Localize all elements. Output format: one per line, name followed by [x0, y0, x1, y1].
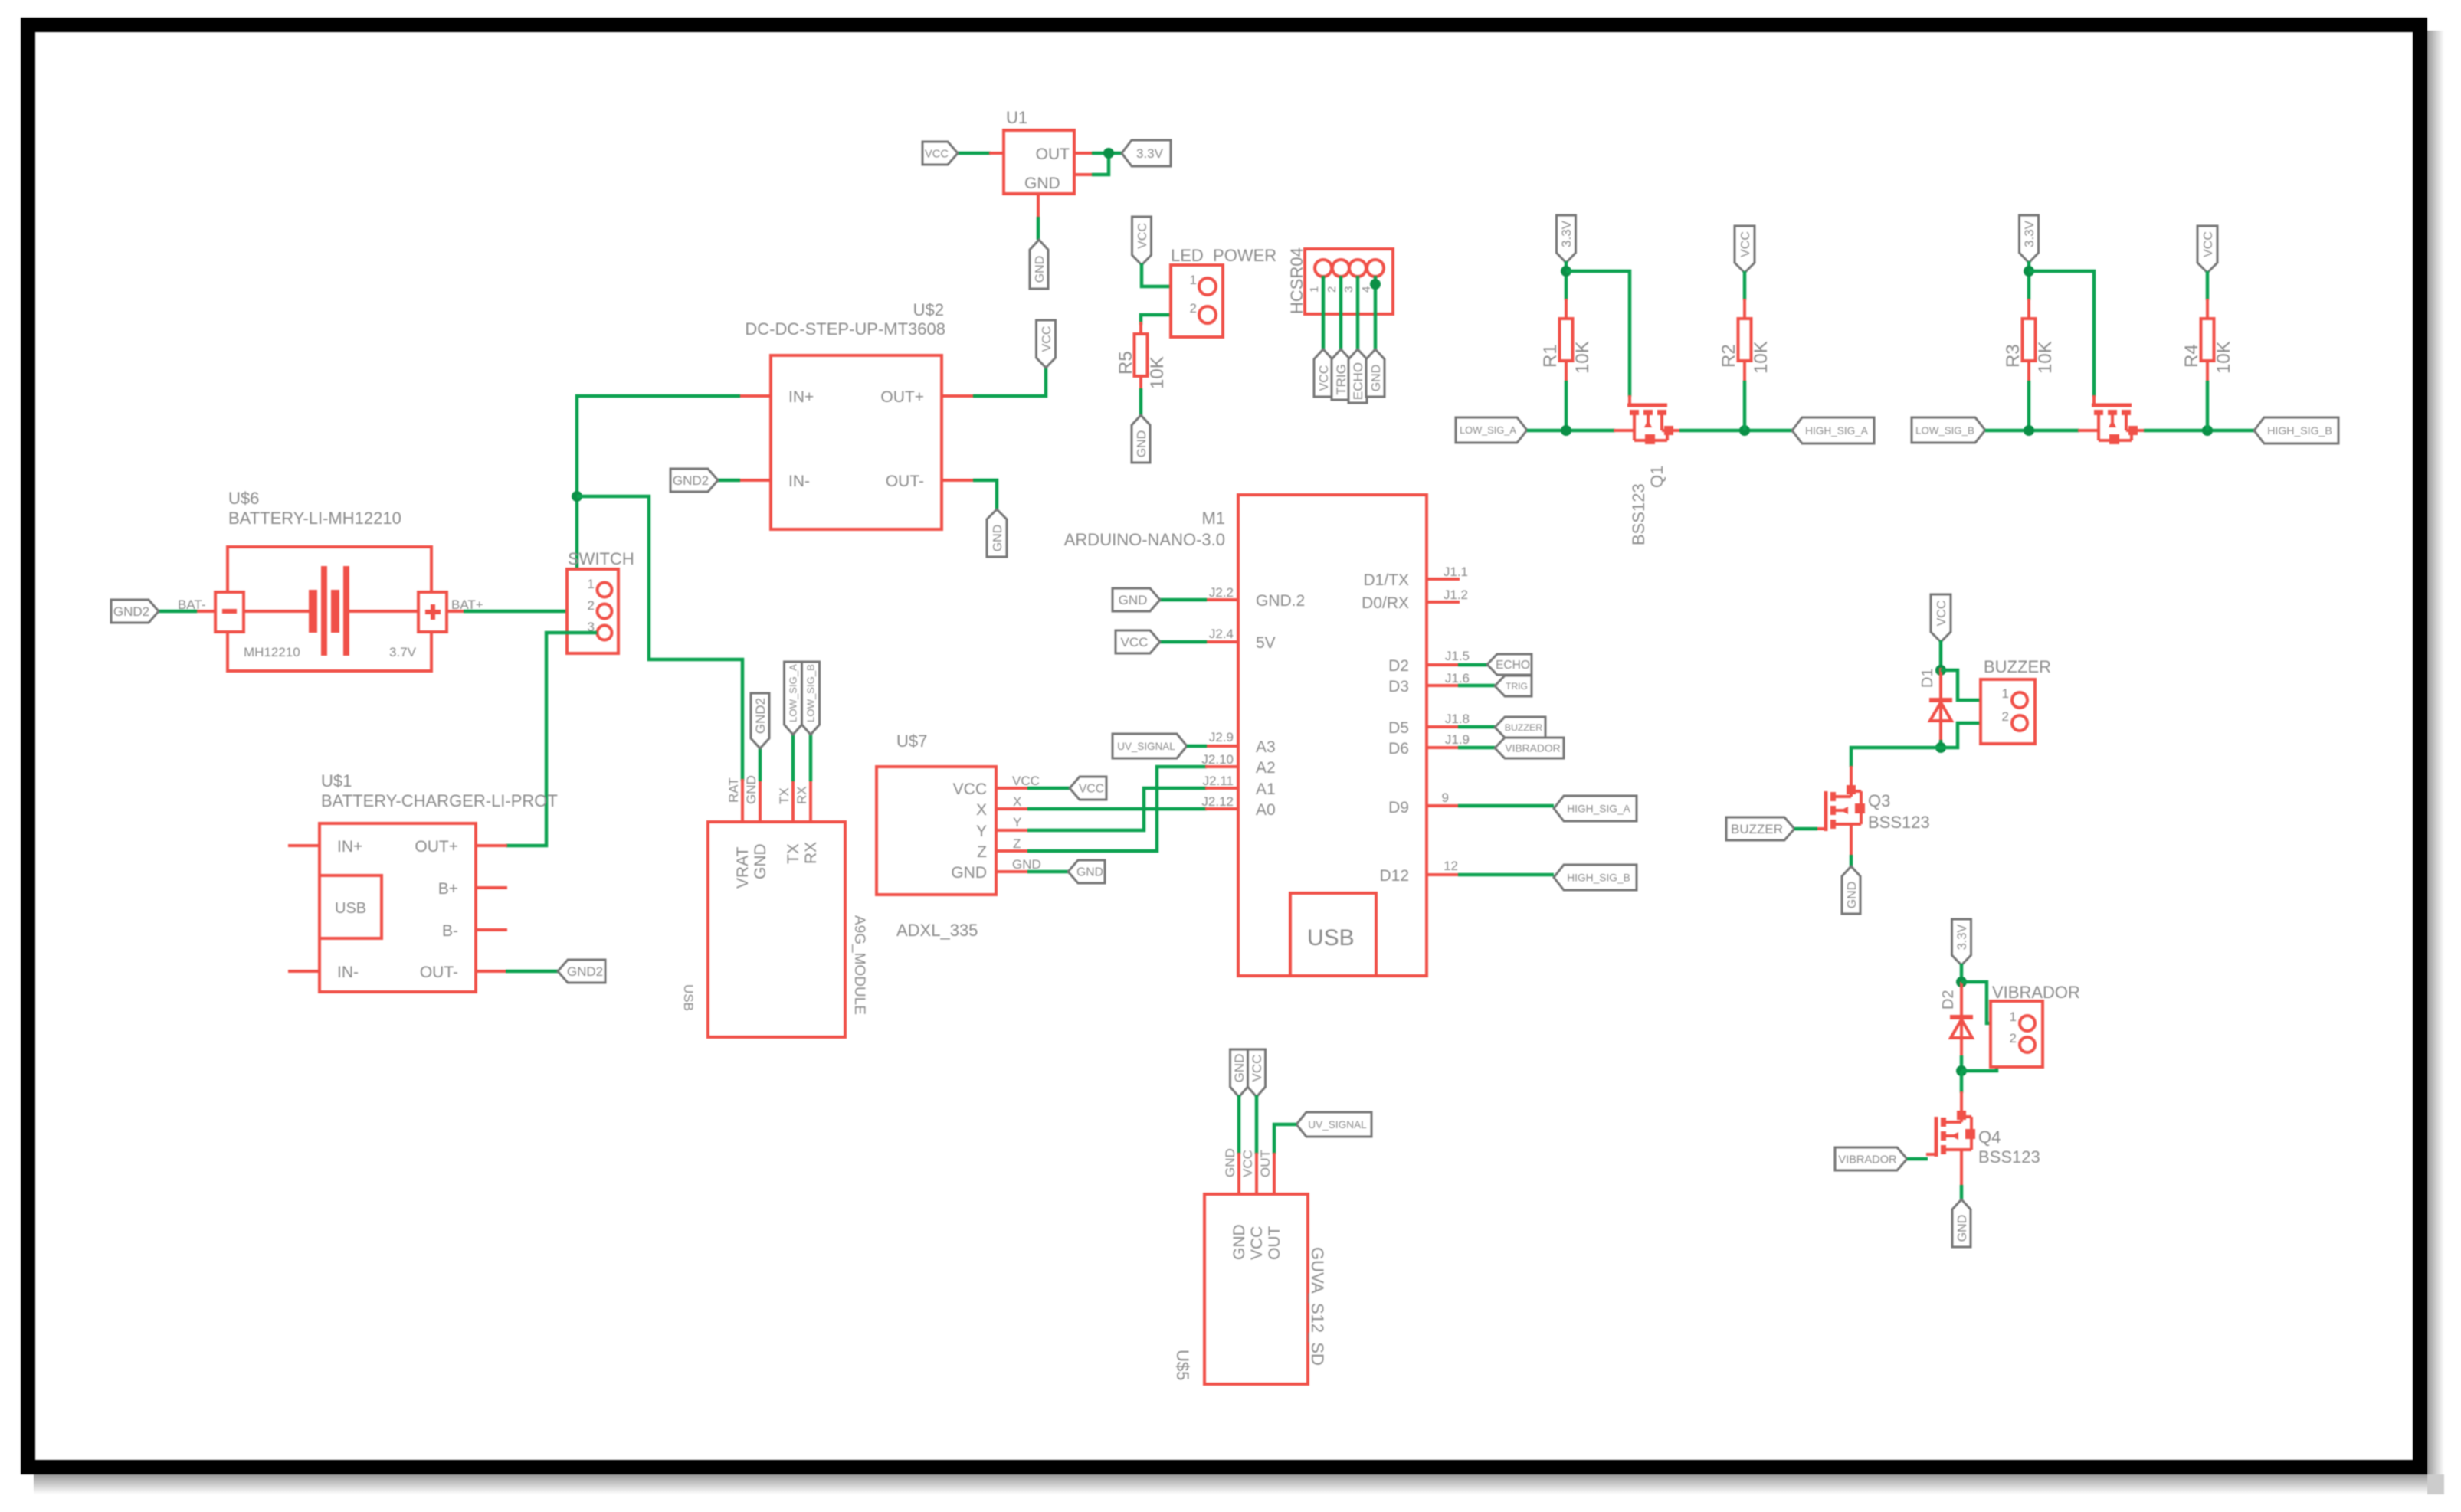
connector VIBRADOR box [1991, 1001, 2043, 1067]
svg-text:VCC: VCC [1121, 635, 1149, 650]
R3 label [2003, 344, 2024, 368]
junction R2 HIGH_SIG_A node [1739, 425, 1750, 436]
svg-text:Y: Y [976, 823, 987, 840]
gsm module A9G box [708, 822, 845, 1037]
svg-text:VCC: VCC [1250, 1055, 1264, 1082]
D2 bottom lead [1960, 1038, 1963, 1057]
ADXL Y stub [996, 829, 1029, 832]
U1 label [1006, 108, 1027, 127]
power flag 3.3V (vibrador) [1952, 919, 1971, 965]
svg-text:Y: Y [1013, 815, 1021, 830]
arduino J2.12 stub [1205, 807, 1238, 810]
svg-text:10K: 10K [1572, 341, 1593, 374]
ADXL pin name GND [951, 864, 987, 882]
svg-text:D12: D12 [1379, 867, 1409, 885]
GUVA pin label VCC [1240, 1150, 1255, 1177]
svg-text:D1: D1 [1919, 668, 1936, 688]
wire ADXL GND to flag [1027, 870, 1070, 874]
wire LOW_SIG_A to Q1 [1527, 429, 1615, 433]
LED_POWER label [1171, 246, 1276, 265]
svg-text:U$1: U$1 [321, 771, 352, 790]
resistor R3 body [2023, 319, 2036, 361]
svg-text:GND: GND [1119, 593, 1148, 607]
arduino pin label J2.11 [1203, 774, 1234, 788]
Q4 label [1978, 1127, 2001, 1147]
arduino pin name GND.2 [1256, 592, 1305, 610]
voltage regulator U1 box [1004, 130, 1074, 194]
svg-text:ARDUINO-NANO-3.0: ARDUINO-NANO-3.0 [1064, 530, 1225, 549]
A9G_MODULE side text [851, 915, 867, 1015]
Q3 drain lead [1850, 766, 1853, 778]
Q4 drain lead [1960, 1091, 1963, 1104]
svg-text:LOW_SIG_B: LOW_SIG_B [1915, 424, 1974, 436]
R1 label [1540, 344, 1561, 368]
arduino pin label J1.2 [1444, 587, 1468, 602]
svg-text:LOW_SIG_A: LOW_SIG_A [1460, 424, 1516, 436]
wire HCSR04 pin1 to VCC flag [1322, 276, 1326, 350]
U$1 pin name OUT+ [415, 838, 458, 856]
R5 top lead [1139, 322, 1142, 335]
wire switch to U$2 IN+ [577, 396, 740, 590]
wire HCSR04 pin2 to TRIG flag [1339, 276, 1343, 350]
power flag VCC (ADXL) [1070, 777, 1106, 800]
svg-text:VCC: VCC [2202, 231, 2215, 257]
svg-text:J2.11: J2.11 [1203, 774, 1234, 788]
R1 value 10K [1572, 341, 1593, 374]
wire Q4 source to GND [1960, 1185, 1964, 1201]
wire ADXL VCC to flag [1027, 787, 1071, 790]
svg-text:OUT-: OUT- [420, 964, 458, 981]
svg-text:USB: USB [1307, 925, 1355, 951]
svg-text:3: 3 [1342, 286, 1355, 293]
svg-text:U$2: U$2 [913, 300, 944, 319]
wire HCSR04 pin3 to ECHO flag [1356, 276, 1360, 350]
svg-text:TRIG: TRIG [1334, 364, 1348, 395]
wire node to BUZZER pin 2 [1941, 723, 2012, 748]
wire LOW_SIG_B to Q2 [1985, 429, 2079, 433]
arduino pin label J2.2 [1209, 585, 1234, 600]
U$6 label [228, 489, 259, 508]
net flag HIGH_SIG_B [2254, 417, 2338, 443]
svg-text:BUZZER: BUZZER [1731, 822, 1783, 836]
junction on HCSR04 pin4 [1370, 279, 1381, 290]
svg-text:5V: 5V [1256, 634, 1276, 652]
svg-text:HIGH_SIG_A: HIGH_SIG_A [1805, 425, 1869, 437]
arduino J2.11 stub [1205, 787, 1238, 790]
svg-text:U$7: U$7 [896, 731, 927, 751]
svg-text:D5: D5 [1388, 719, 1409, 737]
ADXL pin name VCC [953, 781, 987, 798]
svg-text:A2: A2 [1256, 759, 1276, 777]
junction LOW_SIG_B node [2024, 425, 2034, 436]
svg-text:OUT+: OUT+ [880, 388, 924, 406]
svg-text:OUT: OUT [1258, 1150, 1273, 1177]
transistor Q3 [1816, 777, 1865, 845]
svg-text:VCC: VCC [1136, 223, 1149, 249]
svg-text:U$5: U$5 [1173, 1350, 1192, 1380]
svg-text:LOW_SIG_A: LOW_SIG_A [788, 664, 799, 722]
wire VCC flag to GUVA VCC [1255, 1095, 1259, 1154]
svg-text:UV_SIGNAL: UV_SIGNAL [1308, 1119, 1367, 1131]
ground flag GND2 (U$2 IN-) [670, 469, 718, 492]
U1 input pin stub [989, 152, 1004, 155]
svg-text:GND: GND [1230, 1224, 1248, 1260]
svg-text:Q4: Q4 [1978, 1127, 2001, 1147]
U$1 pin name B- [442, 922, 458, 940]
R4 label [2181, 344, 2202, 368]
net flag LOW_SIG_B (A9G RX) [802, 662, 820, 735]
GUVA pin label GND [1223, 1148, 1237, 1177]
svg-text:Q1: Q1 [1647, 466, 1666, 488]
battery value MH12210 [244, 645, 300, 659]
net flag LOW_SIG_B [1912, 417, 1985, 443]
svg-text:X: X [1013, 794, 1021, 809]
wire UV_SIGNAL to arduino A3 [1187, 745, 1207, 748]
battery U$6 box [228, 547, 431, 671]
net flag LOW_SIG_A [1456, 417, 1527, 443]
U$1 pin name IN+ [337, 838, 362, 856]
svg-text:GND: GND [1370, 365, 1383, 392]
arduino J1.2 stub [1427, 601, 1460, 604]
junction 3.3V R1 node [1561, 266, 1571, 277]
wire 3.3V node to Q2 gate [2029, 271, 2094, 397]
wire Q1 to HIGH_SIG_A [1679, 429, 1792, 433]
svg-text:1: 1 [2010, 1010, 2017, 1024]
arduino USB text [1307, 925, 1355, 951]
wire VCC to R4 [2206, 271, 2210, 300]
BUZZER pin 2 circle [2012, 715, 2027, 731]
svg-text:D2: D2 [1940, 990, 1957, 1010]
arduino pin name D6 [1388, 740, 1409, 758]
U$2 OUT- stub [942, 479, 975, 482]
arduino pin label J1.8 [1445, 712, 1470, 726]
svg-text:J1.8: J1.8 [1445, 712, 1470, 726]
R3 bottom lead [2027, 360, 2030, 382]
wire switch node to A9G VRAT [577, 496, 742, 781]
M1 name ARDUINO-NANO-3.0 [1064, 530, 1225, 549]
svg-text:10K: 10K [1147, 356, 1168, 389]
GUVA_S12_SD name [1308, 1247, 1327, 1366]
svg-text:VCC: VCC [1040, 326, 1054, 352]
svg-text:GND: GND [1846, 882, 1859, 909]
svg-text:VCC: VCC [953, 781, 987, 798]
battery center wire [243, 610, 419, 613]
svg-text:BATTERY-CHARGER-LI-PROT: BATTERY-CHARGER-LI-PROT [321, 791, 558, 810]
BAT+ pin label [451, 597, 483, 612]
svg-text:BATTERY-LI-MH12210: BATTERY-LI-MH12210 [228, 509, 401, 528]
svg-text:VCC: VCC [1935, 601, 1948, 627]
svg-text:HIGH_SIG_A: HIGH_SIG_A [1567, 803, 1630, 814]
wire arduino D3 to TRIG [1458, 684, 1495, 688]
R5 bottom lead [1139, 376, 1142, 390]
arduino nano M1 box [1238, 495, 1427, 976]
U$1 IN+ stub [288, 844, 320, 847]
svg-text:TRIG: TRIG [1506, 681, 1528, 692]
arduino pin label J1.1 [1444, 565, 1468, 579]
U$1 B- stub [476, 928, 507, 931]
wire arduino D9 to HIGH_SIG_A [1458, 804, 1554, 808]
R2 bottom lead [1743, 360, 1746, 382]
junction D1 anode node [1935, 665, 1946, 676]
svg-text:GND: GND [1012, 857, 1041, 872]
wire 3.3V to D2 [1960, 964, 1964, 986]
A9G pin name VRAT [734, 846, 752, 889]
net flag TRIG (HCSR04) [1332, 349, 1350, 400]
battery cell bars [309, 566, 349, 656]
U1 pin2 stub [1074, 173, 1093, 176]
wire arduino D12 to HIGH_SIG_B [1458, 873, 1554, 877]
BUZZER pin 1 circle [2012, 692, 2027, 708]
wire HCSR04 pin4 to GND flag [1374, 276, 1378, 350]
svg-text:U1: U1 [1006, 108, 1027, 127]
svg-text:D2: D2 [1388, 657, 1409, 675]
switch pin 3 circle [598, 626, 612, 640]
svg-text:A3: A3 [1256, 738, 1276, 756]
arduino pin name D12 [1379, 867, 1409, 885]
svg-text:BSS123: BSS123 [1868, 813, 1930, 832]
net flag BUZZER (Q3 gate) [1726, 817, 1794, 840]
svg-text:J1.1: J1.1 [1444, 565, 1468, 579]
svg-text:IN-: IN- [788, 473, 810, 490]
svg-text:RAT: RAT [726, 777, 741, 803]
transistor Q2 [2078, 395, 2145, 444]
connector BUZZER box [1981, 679, 2035, 744]
wire node to VIBRADOR pin 2 [1961, 1045, 2020, 1071]
svg-text:1: 1 [1308, 286, 1321, 293]
Q3 source lead [1850, 845, 1853, 856]
wire U$2 OUT- to GND [973, 480, 997, 510]
resistor R1 body [1560, 319, 1573, 361]
ground flag GND (below R5) [1132, 415, 1150, 463]
svg-text:R3: R3 [2003, 344, 2024, 368]
wire ADXL X to arduino A0 [1027, 807, 1207, 811]
power flag 3.3V (U1 output) [1122, 140, 1171, 166]
wire VCC to R2 [1743, 271, 1747, 300]
svg-text:VIBRADOR: VIBRADOR [1992, 983, 2080, 1002]
U$1 IN- stub [288, 970, 320, 973]
U$2 name DC-DC-STEP-UP-MT3608 [745, 319, 945, 339]
arduino pin label J2.10 [1201, 752, 1234, 767]
A9G pin label RX [795, 786, 809, 804]
arduino pin name D5 [1388, 719, 1409, 737]
wire U$1 OUT- to GND2 [506, 970, 558, 974]
svg-text:J2.12: J2.12 [1201, 794, 1234, 809]
svg-text:RX: RX [795, 786, 809, 804]
wire D1 to buzzer node [1939, 740, 1943, 748]
R1 top lead [1565, 299, 1568, 319]
svg-text:GND: GND [744, 775, 759, 804]
wire GND flag to GUVA GND [1237, 1095, 1241, 1154]
wire U1 GND down [1037, 217, 1040, 240]
wire GND flag to arduino GND.2 [1160, 598, 1207, 602]
GUVA pin label OUT [1258, 1150, 1273, 1177]
R2 value 10K [1751, 341, 1771, 374]
wire node to VIBRADOR pin 1 [1961, 982, 2020, 1023]
arduino J2.10 stub [1205, 765, 1238, 768]
wire U1 pin2 to 3.3V node [1092, 153, 1109, 175]
net flag ECHO (arduino D2) [1487, 654, 1532, 675]
ADXL Z stub [996, 849, 1029, 853]
power flag VCC (R2) [1735, 226, 1755, 273]
wire node to BUZZER pin 1 [1941, 670, 2012, 700]
svg-text:OUT-: OUT- [886, 473, 924, 490]
A9G pin name GND [752, 843, 769, 879]
A9G RX pin stub [809, 779, 812, 822]
R3 top lead [2027, 299, 2030, 319]
U$2 IN+ stub [739, 394, 771, 398]
A9G pin name TX [785, 843, 802, 864]
power flag VCC (buzzer) [1931, 594, 1951, 642]
svg-text:OUT: OUT [1266, 1226, 1283, 1261]
GUVA OUT stub [1273, 1153, 1276, 1194]
net flag UV_SIGNAL (GUVA) [1296, 1112, 1371, 1137]
wire GND2 to battery minus [158, 610, 197, 614]
D1 label [1919, 668, 1936, 688]
switch pin 2 circle [598, 604, 612, 619]
BUZZER pin numbers [2002, 686, 2009, 724]
A9G USB side text [681, 984, 696, 1011]
wire R4 to HIGH_SIG_B node [2206, 381, 2210, 430]
svg-text:R4: R4 [2181, 344, 2202, 368]
SWITCH label [568, 549, 634, 568]
connector HCSR04 box [1305, 249, 1393, 314]
arduino pin name D1/TX [1363, 571, 1409, 589]
arduino pin name A3 [1256, 738, 1276, 756]
net flag BUZZER (arduino D5) [1495, 717, 1545, 738]
ADXL pin name X [976, 801, 987, 819]
svg-text:MH12210: MH12210 [244, 645, 300, 659]
U$2 OUT+ stub [942, 394, 975, 398]
U1 pin name OUT [1036, 146, 1070, 163]
svg-text:BUZZER: BUZZER [1984, 657, 2051, 676]
arduino pin label J1.6 [1445, 671, 1470, 686]
U$2 IN- stub [739, 479, 771, 482]
power flag VCC (GUVA) [1248, 1049, 1266, 1097]
junction D1 cathode node [1935, 742, 1946, 753]
svg-text:IN-: IN- [337, 964, 359, 981]
svg-text:1: 1 [588, 577, 595, 591]
wire U1 OUT to 3.3V node [1092, 152, 1122, 155]
A9G pin label GND [744, 775, 759, 804]
svg-text:2: 2 [588, 598, 595, 613]
Q4 name BSS123 [1978, 1147, 2040, 1167]
net flag ECHO (HCSR04) [1348, 349, 1367, 403]
arduino D12 stub [1427, 873, 1460, 876]
svg-text:ECHO: ECHO [1351, 362, 1365, 400]
svg-text:GND2: GND2 [567, 964, 603, 979]
svg-text:10K: 10K [1751, 341, 1771, 374]
svg-text:VCC: VCC [1739, 231, 1752, 257]
svg-text:B-: B- [442, 922, 458, 940]
svg-text:2: 2 [1326, 286, 1339, 293]
battery minus lead [195, 610, 215, 613]
battery charger U$1 box [320, 823, 476, 992]
R1 bottom lead [1565, 360, 1568, 382]
svg-text:D9: D9 [1388, 799, 1409, 817]
wire GND2 to U$2 IN- [717, 479, 740, 483]
svg-text:GND: GND [1232, 1054, 1247, 1083]
svg-text:B+: B+ [438, 880, 458, 898]
wire R5 to LED_POWER pin 2 [1141, 315, 1198, 325]
transistor Q4 [1926, 1103, 1975, 1170]
svg-text:Z: Z [977, 843, 987, 861]
arduino pin name A0 [1256, 801, 1276, 819]
ground flag GND (HCSR04) [1366, 349, 1385, 397]
svg-text:10K: 10K [2035, 341, 2056, 374]
arduino J2.9 stub [1205, 745, 1238, 748]
U1 pin name GND [1024, 175, 1060, 192]
svg-text:J2.4: J2.4 [1209, 627, 1234, 641]
switch connector box [567, 569, 618, 653]
svg-text:GUVA_S12_SD: GUVA_S12_SD [1308, 1247, 1327, 1366]
svg-text:J2.2: J2.2 [1209, 585, 1234, 600]
BUZZER label [1984, 657, 2051, 676]
wire D2 to vibrador node [1960, 1055, 1964, 1071]
svg-text:IN+: IN+ [788, 388, 814, 406]
A9G pin name RX [802, 842, 820, 864]
wire R1 to LOW_SIG_A node [1565, 381, 1568, 430]
svg-text:VCC: VCC [1012, 774, 1040, 788]
R5 value 10K [1147, 356, 1168, 389]
svg-text:BUZZER: BUZZER [1505, 722, 1543, 733]
GUVA pin name OUT [1266, 1226, 1283, 1261]
svg-text:D3: D3 [1388, 678, 1409, 695]
svg-text:HIGH_SIG_B: HIGH_SIG_B [1567, 872, 1630, 883]
net flag HIGH_SIG_A (arduino D9) [1554, 796, 1637, 821]
arduino pin label J2.12 [1201, 794, 1234, 809]
ground flag GND2 (U$1 OUT-) [558, 960, 605, 983]
arduino pin label J1.9 [1445, 732, 1470, 747]
power flag VCC (arduino) [1116, 630, 1160, 653]
wire Q3 source to GND [1850, 855, 1853, 868]
U$7 label [896, 731, 927, 751]
svg-text:J1.5: J1.5 [1445, 649, 1470, 663]
junction D2 anode node [1956, 977, 1967, 987]
svg-text:GND: GND [1135, 430, 1149, 458]
arduino J2.2 stub [1205, 598, 1238, 601]
dc-dc converter U$2 box [771, 355, 942, 529]
svg-text:ADXL_335: ADXL_335 [896, 921, 978, 940]
U1 GND pin stub [1037, 194, 1040, 218]
arduino pin label 9 [1442, 790, 1449, 805]
ADXL pin label Z [1013, 836, 1021, 851]
diode D2 [1950, 982, 1973, 1039]
wire battery plus to switch pin 2 [464, 610, 597, 614]
svg-text:VCC: VCC [925, 148, 949, 160]
svg-text:R2: R2 [1719, 344, 1739, 368]
svg-text:VCC: VCC [1248, 1226, 1266, 1260]
power flag VCC (R4) [2197, 226, 2217, 273]
battery plus lead [447, 610, 465, 613]
power flag 3.3V (R1) [1557, 215, 1576, 263]
svg-text:2: 2 [1190, 301, 1197, 316]
U$5 label [1173, 1350, 1192, 1380]
power flag 3.3V (R3) [2020, 215, 2039, 263]
ADXL_335 name label [896, 921, 978, 940]
U$2 pin name OUT- [886, 473, 924, 490]
R4 bottom lead [2206, 360, 2209, 382]
resistor R4 body [2201, 319, 2214, 361]
svg-text:A1: A1 [1256, 781, 1276, 798]
svg-text:Z: Z [1013, 836, 1021, 851]
A9G pin label RAT [726, 777, 741, 803]
Q3 label [1868, 791, 1890, 810]
wire R5 to GND [1139, 388, 1143, 416]
svg-text:USB: USB [681, 984, 696, 1011]
net flag VIBRADOR (Q4 gate) [1835, 1147, 1907, 1170]
svg-text:VCC: VCC [1318, 365, 1331, 391]
svg-text:GND2: GND2 [753, 698, 768, 734]
